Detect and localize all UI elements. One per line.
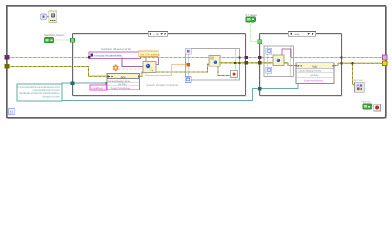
wire olive error mid (140, 64, 210, 76)
orange square coercion (187, 63, 191, 67)
iteration terminal i (9, 109, 15, 115)
app class constant (purple) (40, 14, 47, 20)
svg-text:RT Target: RT Target (246, 14, 258, 17)
svg-text:stop srv: stop srv (362, 101, 372, 104)
case structure CS2 (260, 34, 342, 97)
search node U2 (143, 62, 156, 73)
wire teal path (62, 78, 299, 101)
wire olive node3 down to red dot (218, 66, 233, 76)
olive tunnel right (loop border) (382, 61, 387, 66)
orange icon (to variant) (113, 64, 119, 71)
svg-text:Search Variable Container: Search Variable Container (147, 84, 179, 87)
sub flat sequence F2 (264, 46, 294, 77)
purple tunnel right (loop border) (382, 55, 387, 60)
property node PN2 (296, 63, 334, 84)
svg-text:App: App (121, 75, 127, 79)
svg-text:...: ... (128, 54, 130, 57)
wire peach under search node to orange square (146, 65, 186, 76)
case CS2 selector tunnel (green) (258, 40, 262, 44)
junction dots case2 right (340, 56, 342, 58)
string constant S1 (89, 52, 141, 59)
inner flat sequence F1 (186, 49, 240, 81)
blue icon A (top-left of F1) (185, 48, 191, 54)
svg-text:Get TCP address: Get TCP address (140, 53, 161, 56)
wire olive node4 to property node2 (284, 63, 296, 66)
purple wire string const down to search node (145, 57, 147, 61)
tunnel case1 right border purple (245, 56, 248, 59)
case CS1 selector tunnel (green) (71, 38, 75, 42)
wire bool B3 to stop terminal (372, 106, 374, 108)
red dot box (clear error) (231, 71, 238, 78)
wire olive error trunk left (7, 66, 107, 76)
svg-text:Library.Display.Library: Library.Display.Library (299, 70, 322, 73)
wire bool B2 to CS2 (251, 22, 258, 41)
wire bool B1 to CS1 (54, 39, 70, 41)
svg-text:Lib.Path: Lib.Path (118, 83, 127, 86)
blue icon C (top-left F2) (266, 48, 272, 54)
purple wire search node out step (156, 57, 158, 64)
svg-text:Localhost: Localhost (92, 87, 103, 90)
wire peach to search node (118, 68, 143, 70)
path constant P1 (17, 84, 62, 101)
svg-text:Institution offload at url lis: Institution offload at url list (101, 48, 131, 51)
purple wire trunk branch down to search node left input (122, 58, 143, 67)
blue icon B (bottom-left of F1) (185, 77, 191, 83)
purple junction at string const left (88, 56, 90, 58)
svg-text:Stop: Stop (295, 33, 301, 36)
case CS2 selector label (288, 31, 316, 36)
svg-text:Start/Stop Server: Start/Stop Server (44, 34, 64, 37)
teal tunnel on CS2 left (258, 87, 262, 91)
purple bump over node U4 (282, 49, 291, 57)
LocalHost label (90, 85, 107, 90)
property node PN1 (107, 73, 140, 90)
svg-text:Target.Path&Status: Target.Path&Status (111, 87, 132, 90)
purple tunnel left (loop border) (5, 55, 10, 60)
olive tunnel left (loop border) (5, 64, 10, 69)
svg-text:ni.var.psp://localhost/Mod: ni.var.psp://localhost/Mod (94, 55, 123, 58)
boolean constant B3 (363, 104, 372, 109)
blue icon D (bottom-left F2) (266, 67, 272, 73)
svg-text:App: App (312, 65, 318, 69)
svg-text:Library.Display.Library: Library.Display.Library (108, 80, 131, 83)
error handler icon U5 (353, 79, 365, 92)
wire purple trunk (7, 57, 385, 59)
svg-text:Target.Path&Status: Target.Path&Status (304, 80, 325, 83)
svg-text:Shared Lib.lvlib: Shared Lib.lvlib (42, 95, 60, 98)
node U4 (273, 55, 284, 66)
wire app constant dash (47, 16, 49, 18)
case structure CS1 (73, 34, 247, 97)
wire olive node3 to case2 (220, 62, 273, 64)
wire olive property node2 to right tunnel (334, 63, 384, 84)
tunnel case1 right border olive (245, 61, 248, 64)
node U3 (open variable) (209, 56, 220, 67)
junction dots case1 right (239, 56, 241, 58)
boolean constant B1 (44, 38, 54, 43)
while loop W1 (7, 6, 387, 119)
teal end dot at property node1 (105, 82, 108, 85)
svg-text:ƒi: ƒi (9, 110, 12, 115)
tunnel case2 left border olive (258, 61, 261, 64)
app icon U0 (49, 11, 57, 23)
boolean constant B2 (246, 17, 256, 22)
svg-text:Lib.Path: Lib.Path (310, 74, 319, 77)
teal tunnel on CS1 left (71, 81, 75, 85)
loop condition terminal (374, 104, 381, 111)
case CS1 selector label (148, 31, 168, 36)
yellow free label L1 (139, 51, 161, 57)
svg-text:error out: error out (353, 79, 363, 82)
